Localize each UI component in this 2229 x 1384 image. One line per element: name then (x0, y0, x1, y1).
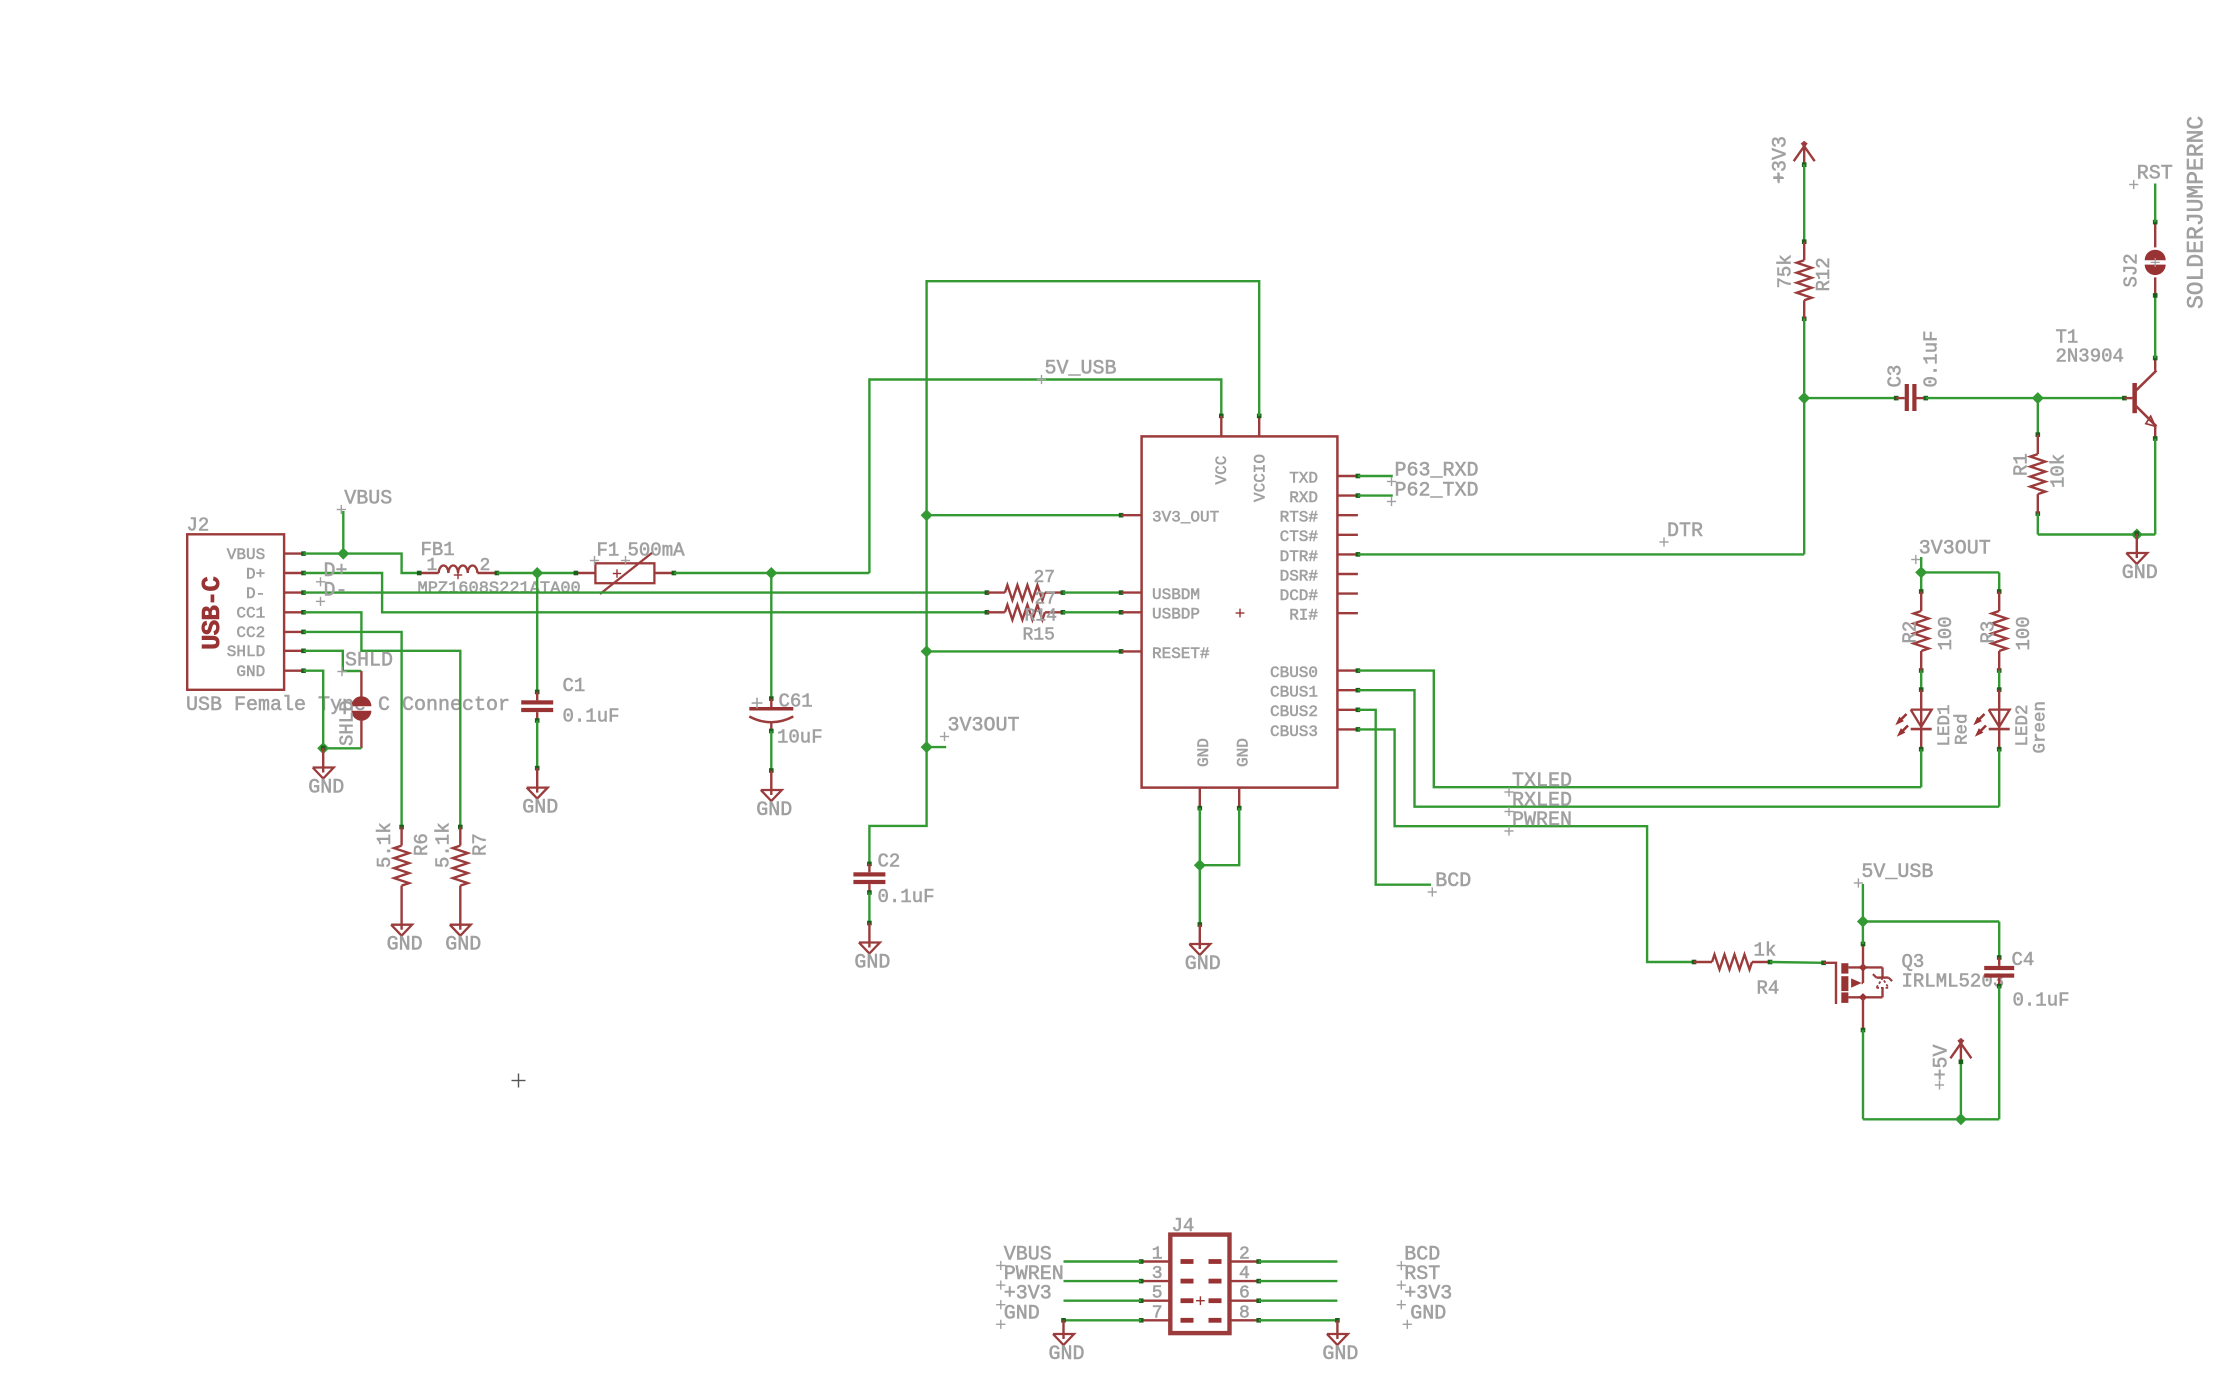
svg-text:RI#: RI# (1289, 607, 1318, 625)
svg-text:R14: R14 (1025, 607, 1057, 627)
svg-text:R4: R4 (1757, 978, 1780, 1000)
svg-text:4: 4 (1239, 1264, 1250, 1284)
svg-text:USBDM: USBDM (1152, 586, 1200, 604)
svg-text:DTR: DTR (1667, 520, 1703, 543)
svg-text:TXD: TXD (1289, 469, 1318, 487)
svg-text:GND: GND (2122, 562, 2158, 585)
svg-text:VCCIO: VCCIO (1252, 454, 1270, 502)
svg-text:Red: Red (1953, 713, 1973, 745)
svg-text:PWREN: PWREN (1512, 809, 1572, 832)
svg-text:5.1k: 5.1k (433, 822, 455, 868)
svg-text:C2: C2 (878, 851, 901, 873)
svg-text:2N3904: 2N3904 (2056, 346, 2124, 368)
svg-text:CBUS3: CBUS3 (1270, 723, 1318, 741)
svg-text:500mA: 500mA (628, 540, 686, 562)
svg-text:GND: GND (522, 797, 558, 820)
svg-text:CBUS0: CBUS0 (1270, 664, 1318, 682)
svg-text:7: 7 (1152, 1303, 1163, 1323)
svg-text:GND: GND (1410, 1302, 1446, 1325)
svg-text:R7: R7 (470, 833, 492, 856)
svg-text:GND: GND (1004, 1302, 1040, 1325)
svg-text:BCD: BCD (1435, 870, 1471, 893)
svg-text:SJ2: SJ2 (2121, 253, 2143, 287)
svg-text:100: 100 (2013, 616, 2035, 650)
svg-text:VBUS: VBUS (227, 546, 265, 564)
svg-text:5.1k: 5.1k (374, 822, 396, 868)
svg-text:10k: 10k (2048, 454, 2070, 488)
svg-text:J4: J4 (1172, 1215, 1195, 1237)
svg-text:3: 3 (1152, 1264, 1163, 1284)
svg-text:5V_USB: 5V_USB (1045, 358, 1117, 381)
svg-text:GND: GND (1195, 738, 1213, 767)
svg-text:J2: J2 (187, 515, 210, 537)
svg-text:+5V: +5V (1931, 1044, 1954, 1080)
svg-text:MPZ1608S221ATA00: MPZ1608S221ATA00 (418, 580, 581, 599)
svg-text:GND: GND (854, 952, 890, 975)
svg-text:RST: RST (2137, 163, 2173, 186)
svg-text:Green: Green (2031, 701, 2051, 754)
svg-text:R2: R2 (1900, 621, 1922, 644)
svg-text:USBDP: USBDP (1152, 606, 1200, 624)
svg-text:D-: D- (324, 579, 348, 602)
svg-text:GND: GND (1185, 953, 1221, 976)
svg-text:GND: GND (387, 934, 423, 957)
svg-text:VCC: VCC (1213, 456, 1231, 485)
svg-text:1: 1 (1152, 1245, 1163, 1265)
svg-text:27: 27 (1034, 568, 1056, 588)
svg-text:CBUS1: CBUS1 (1270, 684, 1318, 702)
svg-text:C1: C1 (563, 675, 586, 697)
svg-text:R15: R15 (1023, 626, 1055, 646)
svg-text:RXD: RXD (1289, 489, 1318, 507)
svg-text:2: 2 (480, 556, 491, 576)
svg-text:SHLD: SHLD (227, 643, 265, 661)
svg-text:SOLDERJUMPERNC: SOLDERJUMPERNC (2184, 116, 2210, 309)
svg-text:GND: GND (308, 777, 344, 800)
svg-text:USB-C: USB-C (197, 577, 227, 650)
svg-text:GND: GND (756, 799, 792, 822)
svg-text:DTR#: DTR# (1280, 548, 1319, 566)
svg-text:R6: R6 (411, 833, 433, 856)
svg-text:0.1uF: 0.1uF (1921, 330, 1943, 387)
svg-text:CBUS2: CBUS2 (1270, 703, 1318, 721)
svg-text:C4: C4 (2012, 949, 2035, 971)
svg-text:GND: GND (236, 663, 265, 681)
svg-text:C61: C61 (779, 691, 813, 713)
svg-text:1k: 1k (1754, 940, 1777, 962)
svg-text:SHLD: SHLD (345, 650, 393, 673)
svg-text:8: 8 (1239, 1303, 1250, 1323)
svg-text:SHLD: SHLD (337, 700, 359, 746)
svg-text:3V3_OUT: 3V3_OUT (1152, 509, 1219, 527)
svg-text:CTS#: CTS# (1280, 528, 1319, 546)
svg-text:100: 100 (1935, 616, 1957, 650)
svg-text:CC1: CC1 (236, 605, 265, 623)
svg-text:0.1uF: 0.1uF (2013, 990, 2070, 1012)
svg-text:C3: C3 (1885, 365, 1907, 388)
svg-text:F1: F1 (597, 540, 620, 562)
svg-text:RESET#: RESET# (1152, 645, 1210, 663)
svg-text:D+: D+ (246, 565, 265, 583)
svg-text:0.1uF: 0.1uF (563, 706, 620, 728)
svg-text:R12: R12 (1813, 257, 1835, 291)
svg-text:GND: GND (1235, 738, 1253, 767)
svg-text:1: 1 (427, 556, 438, 576)
svg-text:R3: R3 (1978, 621, 2000, 644)
svg-text:GND: GND (1048, 1343, 1084, 1366)
svg-text:2: 2 (1239, 1245, 1250, 1265)
svg-text:R1: R1 (2011, 453, 2033, 476)
svg-text:5V_USB: 5V_USB (1861, 861, 1933, 884)
svg-text:10uF: 10uF (777, 727, 823, 749)
svg-text:3V3OUT: 3V3OUT (1919, 538, 1991, 561)
svg-text:P62_TXD: P62_TXD (1395, 480, 1479, 503)
svg-text:RTS#: RTS# (1280, 509, 1319, 527)
svg-text:VBUS: VBUS (344, 488, 392, 511)
svg-text:0.1uF: 0.1uF (878, 886, 935, 908)
svg-text:CC2: CC2 (236, 624, 265, 642)
svg-text:GND: GND (1322, 1343, 1358, 1366)
svg-text:5: 5 (1152, 1284, 1163, 1304)
svg-text:75k: 75k (1775, 254, 1797, 288)
svg-text:3V3OUT: 3V3OUT (948, 715, 1020, 738)
svg-text:DSR#: DSR# (1280, 567, 1319, 585)
svg-text:D-: D- (246, 585, 265, 603)
svg-text:DCD#: DCD# (1280, 587, 1319, 605)
svg-text:GND: GND (445, 934, 481, 957)
svg-text:6: 6 (1239, 1284, 1250, 1304)
